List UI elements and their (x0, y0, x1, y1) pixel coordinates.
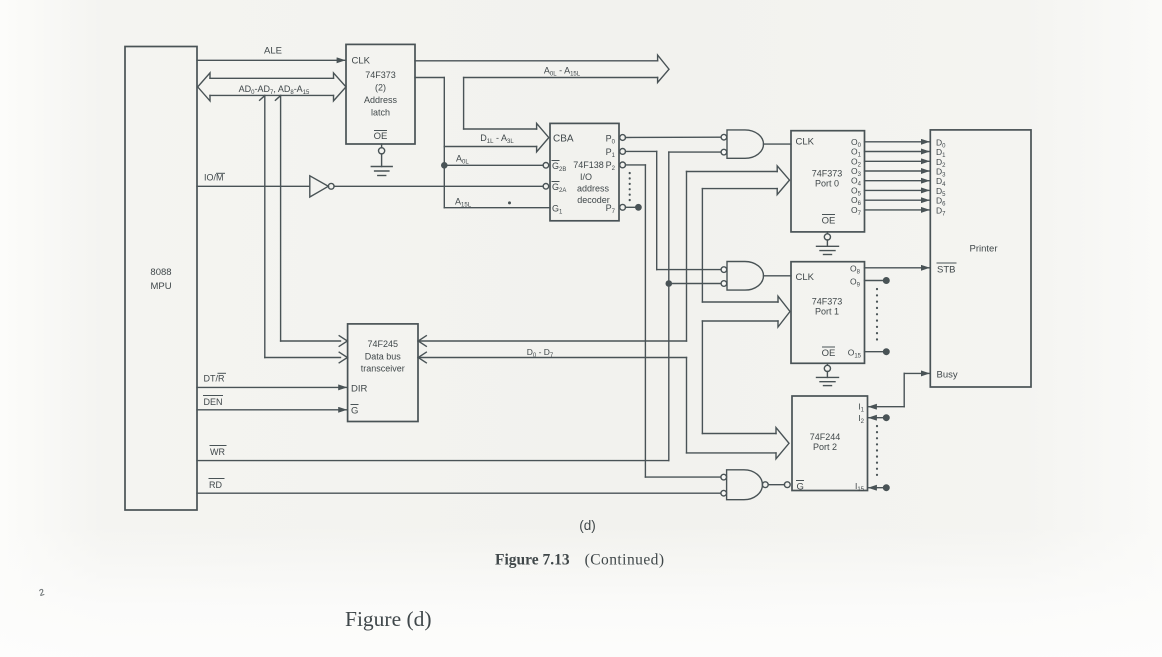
svg-text:P1: P1 (606, 147, 616, 159)
svg-text:74F373: 74F373 (812, 169, 843, 179)
latch OE ground (371, 144, 392, 176)
svg-text:O9: O9 (850, 277, 861, 289)
wire P0 to gate1 (626, 136, 721, 138)
svg-text:ALE: ALE (264, 46, 282, 57)
svg-text:74F245: 74F245 (368, 339, 399, 349)
svg-text:74F244: 74F244 (810, 432, 841, 442)
svg-text:latch: latch (371, 108, 390, 118)
wire WR from MPU with riser (197, 152, 721, 461)
wires port0 O0-O7 to printer D0-D7 (865, 142, 930, 210)
bus D0-D7 74F245 to channel (418, 336, 687, 363)
svg-text:O15: O15 (848, 348, 862, 360)
svg-text:DEN: DEN (204, 397, 223, 407)
wire IO/M from MPU (197, 173, 310, 187)
svg-text:G1: G1 (552, 204, 563, 216)
wire DT/R to DIR (197, 373, 347, 387)
bus A0L-A15L (hollow arrow right) (415, 55, 669, 82)
dotted line O9..O15 (876, 289, 878, 345)
wire O9 stub with dot (865, 278, 890, 284)
8088 MPU U1 (125, 47, 197, 511)
svg-text:DIR: DIR (351, 384, 368, 395)
wire P7 stub with dot (626, 205, 642, 210)
svg-text:I1: I1 (858, 402, 864, 414)
wire RD from MPU to gate3 (197, 479, 721, 494)
svg-text:Port 0: Port 0 (815, 179, 839, 189)
wire ALE (197, 46, 345, 61)
svg-text:Busy: Busy (937, 370, 958, 381)
svg-text:AD0-AD7, AD8-A15: AD0-AD7, AD8-A15 (239, 84, 310, 96)
svg-text:CLK: CLK (796, 272, 815, 283)
svg-text:O8: O8 (850, 264, 861, 276)
svg-text:G: G (351, 406, 358, 417)
decoder output bubbles P0 P1 P2 P7 (620, 135, 626, 211)
wire AD drop to 74F245 (left) (260, 95, 348, 362)
svg-text:8088: 8088 (150, 267, 171, 278)
svg-text:A15L: A15L (455, 197, 472, 209)
dotted line P2..P7 (629, 173, 631, 202)
svg-text:address: address (577, 184, 610, 194)
gate U6 (AND, port1 clock) (721, 262, 791, 291)
wire DEN to G (197, 396, 347, 410)
svg-text:(d): (d) (579, 518, 596, 533)
port1 latch 74F373 U10 (791, 262, 865, 364)
svg-text:RD: RD (209, 480, 222, 490)
svg-text:CBA: CBA (553, 134, 574, 145)
wire AD drop to 74F245 (right) (275, 95, 347, 346)
transceiver 74F245 U8 (348, 324, 418, 422)
printer block (930, 130, 1031, 387)
svg-text:CLK: CLK (796, 137, 815, 148)
svg-text:Address: Address (364, 95, 398, 105)
wire A15L to G1 (444, 197, 550, 209)
svg-text:G2A: G2A (552, 182, 566, 194)
svg-text:D1L - A3L: D1L - A3L (480, 133, 514, 145)
svg-text:IO/M: IO/M (204, 173, 224, 183)
wire P2 to gate3 (626, 165, 721, 477)
svg-text:74F373: 74F373 (365, 70, 396, 80)
decoder input bubbles G2B G2A (543, 163, 549, 190)
inverter U3 (310, 176, 334, 197)
svg-text:Data bus: Data bus (365, 352, 402, 362)
wire P1 to gate2 (626, 151, 721, 269)
svg-text:MPU: MPU (150, 281, 171, 292)
svg-text:DT/R: DT/R (204, 374, 225, 384)
wire inverter out to G2A (334, 185, 543, 187)
svg-text:OE: OE (822, 348, 836, 359)
svg-text:Figure 7.13(Continued): Figure 7.13(Continued) (495, 552, 664, 569)
svg-text:WR: WR (210, 447, 225, 457)
bus branch latch to decoder CBA (hollow arrow) (415, 78, 549, 152)
svg-text:G2B: G2B (552, 161, 566, 173)
svg-text:CLK: CLK (352, 56, 371, 67)
svg-text:decoder: decoder (577, 195, 610, 205)
wire I2 stub with dot (868, 415, 889, 421)
wire O15 stub with dot (865, 349, 890, 355)
port1 ground (817, 363, 839, 385)
gate U5 (AND, port0 clock) (721, 130, 791, 158)
svg-text:STB: STB (937, 265, 955, 276)
port0 output labels O0-O7 (851, 137, 862, 217)
bus channel verticals (data bus to ports) (687, 172, 703, 453)
svg-text:OE: OE (822, 216, 836, 227)
junction WR to gate2 (666, 281, 721, 286)
wire I15 stub with dot (868, 485, 889, 491)
wire Busy printer to port2 I1 (868, 373, 929, 406)
decoder 74F138 U4 (550, 123, 619, 220)
svg-text:74F373: 74F373 (812, 297, 843, 307)
svg-text:74F138: 74F138 (573, 160, 604, 170)
dotted line I2..I15 (876, 426, 878, 480)
svg-text:OE: OE (374, 131, 388, 142)
svg-text:Port 2: Port 2 (813, 442, 837, 452)
svg-text:A0L - A15L: A0L - A15L (544, 66, 581, 78)
svg-text:Figure (d): Figure (d) (345, 607, 432, 631)
svg-text:Port 1: Port 1 (815, 307, 839, 317)
svg-text:I/O: I/O (580, 172, 592, 182)
wire O8 to STB (865, 267, 930, 269)
bus arrow into port0 (687, 166, 790, 195)
bus arrow into port2 (687, 428, 790, 459)
bus arrow into port1 (702, 296, 790, 327)
svg-text:G: G (797, 482, 804, 493)
svg-text:2: 2 (38, 587, 45, 598)
port0 ground (817, 232, 839, 255)
svg-text:Printer: Printer (970, 244, 998, 255)
svg-text:transceiver: transceiver (361, 364, 405, 374)
buffer 74F244 port2 U11 (792, 396, 868, 493)
latch 74F373 (2) U2 (346, 44, 415, 144)
svg-text:A0L: A0L (456, 154, 469, 166)
svg-text:I15: I15 (855, 481, 865, 493)
bus AD0-AD7, AD8-A15 (bidirectional hollow arrow) (198, 73, 346, 101)
wire A0L to G2B (442, 147, 543, 208)
svg-text:I2: I2 (858, 413, 864, 425)
port0 latch 74F373 U9 (791, 131, 865, 232)
svg-text:(2): (2) (375, 83, 386, 93)
svg-text:P2: P2 (606, 160, 616, 172)
svg-text:P0: P0 (606, 134, 616, 146)
gate U7 (NAND, port2 enable) (721, 470, 790, 500)
